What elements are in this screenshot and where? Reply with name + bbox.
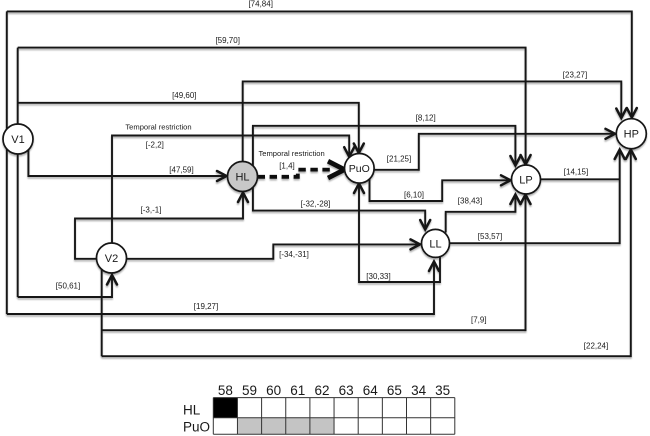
- svg-text:V2: V2: [105, 253, 118, 265]
- wire edge [22,24] V2 to HP: [102, 152, 631, 357]
- arrowhead [49,60] into PuO top: [354, 144, 364, 154]
- svg-text:Temporal restriction: Temporal restriction: [258, 149, 324, 158]
- svg-text:[74,84]: [74,84]: [248, 0, 272, 9]
- svg-text:[49,60]: [49,60]: [172, 91, 196, 100]
- wire edge [19,27] V1 to LL: [7, 264, 434, 315]
- wire edge [74,84] V1 to HP: [7, 11, 632, 115]
- svg-text:[14,15]: [14,15]: [564, 168, 588, 177]
- arrowhead [23,27] into HP top: [616, 109, 626, 119]
- wire edge [50,61] V1 to V2: [18, 277, 112, 297]
- arrowhead [53,57] into HP bottom: [615, 150, 625, 160]
- svg-text:[1,4]: [1,4]: [279, 162, 295, 171]
- wire edge [14,15] LP to HP: [541, 178, 620, 180]
- wire edge [47,59] V1 to HL: [28, 150, 224, 177]
- svg-text:[30,33]: [30,33]: [366, 272, 390, 281]
- svg-text:35: 35: [435, 383, 450, 398]
- svg-text:60: 60: [266, 383, 281, 398]
- svg-text:[7,9]: [7,9]: [471, 316, 487, 325]
- wire edge [30,33] LL to PuO: [359, 186, 440, 283]
- wire edge [8,12] HL to LP: [253, 126, 516, 167]
- arrowhead [6,10] into LP left: [501, 175, 511, 185]
- arrowhead [19,27] into LL bottom: [429, 262, 439, 272]
- svg-text:58: 58: [218, 383, 233, 398]
- svg-text:HP: HP: [624, 129, 639, 141]
- svg-text:59: 59: [242, 383, 257, 398]
- svg-text:HL: HL: [235, 172, 249, 184]
- node LL: [422, 229, 450, 257]
- wire edge [38,43] LL to LP: [446, 197, 516, 233]
- dashed edge [1,4] HL to PuO (temporal restriction): [258, 170, 331, 177]
- svg-text:[22,24]: [22,24]: [584, 342, 608, 351]
- svg-text:[-32,-28]: [-32,-28]: [301, 199, 331, 208]
- arrowhead [8,12] into LP top: [510, 156, 520, 166]
- svg-text:[19,27]: [19,27]: [194, 302, 218, 311]
- wire edge [7,9] V2 to LP: [102, 197, 526, 331]
- svg-text:[47,59]: [47,59]: [169, 165, 193, 174]
- svg-text:63: 63: [339, 383, 354, 398]
- svg-text:V1: V1: [11, 134, 24, 146]
- svg-text:62: 62: [314, 383, 329, 398]
- svg-text:Temporal restriction: Temporal restriction: [125, 123, 191, 132]
- svg-text:PuO: PuO: [349, 163, 370, 175]
- arrowhead [50,61] into V2 bottom: [107, 275, 117, 285]
- svg-text:[50,61]: [50,61]: [56, 282, 80, 291]
- wire edge [-34,-31] V2 to LL: [127, 244, 419, 258]
- arrowhead [38,43] into LP bottom: [510, 195, 520, 205]
- arrowhead [-3,-1] into HL bottom: [238, 193, 248, 203]
- timeline table grid: [213, 398, 454, 435]
- svg-text:[6,10]: [6,10]: [404, 191, 424, 200]
- node HP: [616, 119, 646, 149]
- node V2: [97, 243, 127, 273]
- node PuO: [345, 154, 375, 184]
- arrowhead [30,33] into PuO bottom: [354, 184, 364, 194]
- svg-text:[-3,-1]: [-3,-1]: [141, 206, 162, 215]
- wire edge [53,57] LL to HP: [450, 152, 620, 244]
- wire edge [-32,-28] HL to LL: [253, 188, 425, 228]
- arrowhead [7,9] into LP bottom: [521, 195, 531, 205]
- arrowhead [59,70] into LP top: [521, 155, 531, 165]
- svg-text:[8,12]: [8,12]: [416, 114, 436, 123]
- node HL (gray): [228, 162, 258, 192]
- svg-text:65: 65: [387, 383, 402, 398]
- gray cells PuO@59-62: [237, 418, 334, 435]
- svg-text:[38,43]: [38,43]: [458, 197, 482, 206]
- arrowhead [22,24] into HP bottom: [626, 150, 636, 160]
- svg-text:[-34,-31]: [-34,-31]: [279, 250, 309, 259]
- svg-text:34: 34: [411, 383, 427, 398]
- wire trunk B (V1 inner vertical): [17, 48, 19, 297]
- arrowhead [-2,2] into PuO top: [344, 147, 354, 157]
- wire trunk V2 bottom: [101, 269, 103, 356]
- wire trunk A (V1 left vertical): [6, 11, 8, 314]
- svg-text:LP: LP: [519, 175, 532, 187]
- arrowhead [-34,-31] into LL left: [411, 239, 421, 249]
- wire edge [6,10] PuO to LP: [370, 177, 509, 201]
- arrowhead [-32,-28] into LL top: [420, 220, 430, 230]
- svg-text:[59,70]: [59,70]: [215, 36, 239, 45]
- svg-text:PuO: PuO: [183, 420, 210, 435]
- arrowhead [21,25] into HP left: [606, 129, 616, 139]
- arrowhead [74,84] into HP top: [627, 108, 637, 118]
- wire edge [23,27] HL to HP: [243, 81, 622, 161]
- wire edge [59,70] V1 to LP: [18, 48, 526, 163]
- node V1: [3, 124, 33, 154]
- wire edge [49,60] V1 to PuO: [18, 103, 359, 151]
- svg-text:LL: LL: [429, 238, 441, 250]
- node LP: [512, 165, 541, 194]
- svg-text:[21,25]: [21,25]: [387, 154, 411, 163]
- svg-text:64: 64: [363, 383, 379, 398]
- svg-text:[23,27]: [23,27]: [563, 70, 587, 79]
- svg-text:[-2,2]: [-2,2]: [146, 141, 164, 150]
- wire edge [-3,-1] V2 to HL: [75, 195, 243, 259]
- svg-text:HL: HL: [183, 403, 201, 418]
- arrowhead [47,59] into HL left: [217, 171, 227, 181]
- wire edge [-2,2] V2 to PuO (temporal restriction): [112, 136, 349, 244]
- wire edge [21,25] PuO to HP: [373, 134, 613, 170]
- arrowhead of dashed edge at PuO: [328, 161, 345, 178]
- black cell HL@58: [213, 398, 237, 418]
- svg-text:61: 61: [290, 383, 305, 398]
- svg-text:[53,57]: [53,57]: [478, 232, 502, 241]
